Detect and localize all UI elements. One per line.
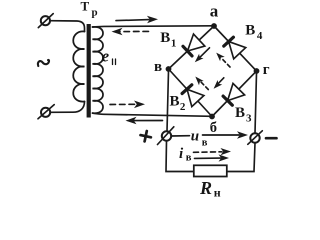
arrow interior dashed (b to v) — [195, 77, 208, 90]
diode V1 — [183, 34, 205, 56]
arrow interior solid (g to b) — [214, 78, 224, 89]
wire g down to minus terminal — [255, 73, 257, 133]
arrow dashed left (top wire) — [112, 28, 149, 36]
input terminal bottom-left — [38, 105, 54, 119]
svg-text:г: г — [263, 62, 270, 78]
wire minus terminal to load (right leg) — [227, 143, 255, 172]
wire plus terminal to load (left leg) — [166, 141, 194, 172]
diode V2 — [182, 85, 204, 107]
node b — [209, 114, 215, 120]
svg-text:В2: В2 — [170, 93, 186, 113]
arrow solid right (top wire) — [116, 16, 158, 24]
arrow i_v dashed (upper) — [194, 148, 232, 155]
svg-text:е: е — [102, 47, 109, 66]
wire secondary top to node a — [93, 26, 214, 27]
svg-text:в: в — [186, 152, 192, 163]
wire v down to plus terminal — [167, 71, 169, 131]
wire u_v short segment from plus terminal — [171, 135, 189, 137]
resistor RH — [194, 165, 227, 176]
diode V4 — [224, 37, 246, 59]
svg-text:б: б — [210, 120, 217, 136]
minus sign — [266, 137, 277, 140]
svg-text:в: в — [154, 59, 162, 75]
node v — [166, 66, 172, 72]
node g — [254, 68, 260, 74]
primary winding — [73, 31, 84, 101]
bridge arm v-b — [169, 69, 213, 117]
bridge arm v-a — [169, 26, 215, 69]
arrow dashed right (bottom wire) — [110, 101, 145, 109]
svg-text:Т: Т — [81, 0, 90, 14]
svg-text:р: р — [92, 7, 98, 19]
wire primary bottom — [50, 102, 84, 113]
bridge arm a-g — [214, 26, 257, 71]
input terminal top-left — [38, 14, 53, 28]
arrow interior dashed (g to a) — [216, 53, 230, 67]
wire primary top — [50, 21, 85, 32]
svg-text:R: R — [199, 178, 212, 198]
AC source tilde — [38, 60, 49, 66]
arrow interior solid (a to v) — [195, 48, 210, 62]
node a — [211, 23, 217, 29]
plus sign — [139, 130, 152, 143]
svg-text:н: н — [214, 185, 221, 199]
svg-text:В4: В4 — [245, 23, 263, 43]
svg-text:u: u — [191, 128, 199, 144]
arrow solid left (bottom wire) — [126, 117, 163, 125]
output terminal minus — [248, 131, 262, 145]
svg-text:В3: В3 — [235, 105, 252, 125]
svg-text:В1: В1 — [160, 30, 176, 50]
svg-text:i: i — [179, 146, 184, 162]
output terminal plus — [158, 127, 174, 145]
svg-text:а: а — [210, 2, 219, 21]
diode V3 — [223, 83, 245, 105]
secondary winding — [93, 27, 104, 113]
transformer core — [87, 24, 91, 118]
arrow u_v (voltage arrow to minus terminal) — [203, 131, 249, 139]
bridge arm b-g — [212, 71, 257, 117]
wire secondary bottom to node b — [93, 113, 212, 116]
svg-text:в: в — [202, 137, 208, 148]
arrow i_v solid (lower) — [195, 154, 230, 161]
